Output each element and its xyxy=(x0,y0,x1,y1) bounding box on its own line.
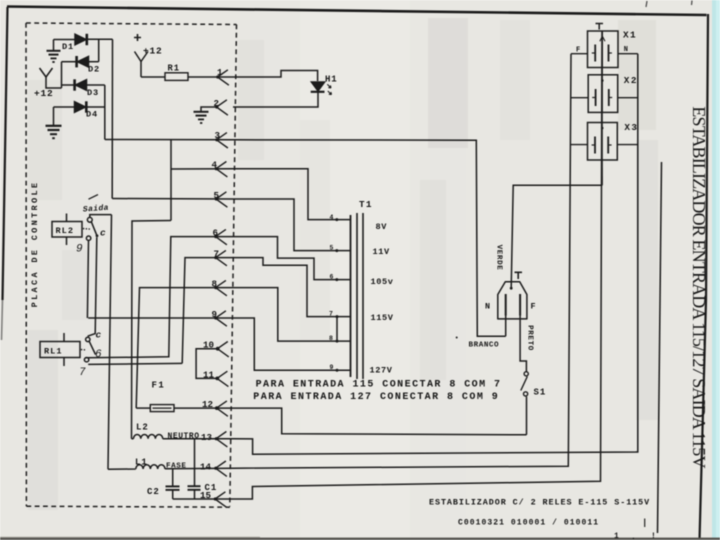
pin2 wire into placa + ground G3 xyxy=(201,107,217,112)
pin 7 xyxy=(214,250,227,265)
svg-text:D2: D2 xyxy=(88,65,100,75)
pin 15 xyxy=(214,492,227,507)
svg-text:9: 9 xyxy=(76,244,83,256)
pin 5 wire (inside placa) xyxy=(112,198,233,201)
contact lower circle xyxy=(86,236,90,240)
pin N bar xyxy=(505,294,507,316)
svg-text:7: 7 xyxy=(79,367,86,379)
svg-text:F1: F1 xyxy=(152,381,166,391)
capacitor C2 leads xyxy=(172,469,174,486)
wire D1-D2 link xyxy=(98,39,100,61)
plus sign xyxy=(134,34,141,41)
tap voltage labels xyxy=(370,222,394,376)
wire D3/D4 right vertical to pin3 wire xyxy=(104,85,106,140)
svg-text:9: 9 xyxy=(330,364,334,371)
svg-text:C1: C1 xyxy=(205,483,218,493)
wire rail to L2 xyxy=(132,221,172,439)
+12 supply Y symbol top xyxy=(135,52,142,62)
pin number labels xyxy=(200,67,223,501)
svg-text:4: 4 xyxy=(330,214,334,221)
speck xyxy=(456,337,458,339)
tap4 wire from pin 4 xyxy=(233,169,351,220)
svg-text:T1: T1 xyxy=(359,199,373,210)
ground G1 xyxy=(47,40,61,63)
wire pin12 to switch S1 xyxy=(233,408,527,435)
pin 1 xyxy=(216,70,229,85)
svg-text:13: 13 xyxy=(201,432,213,443)
svg-text:+12: +12 xyxy=(143,46,163,57)
svg-text:|: | xyxy=(642,518,647,528)
socket X3 xyxy=(588,112,618,185)
svg-text:!: ! xyxy=(651,532,656,540)
pin 10 xyxy=(216,342,229,357)
svg-text:5: 5 xyxy=(330,245,334,252)
LED H1 xyxy=(311,82,324,91)
pin 8 xyxy=(214,280,227,295)
tap7 wire from pin 7 xyxy=(233,258,351,317)
pin 7 wire + drop to RL1 arm xyxy=(182,258,233,364)
pin 9 xyxy=(214,311,227,326)
socket X1 xyxy=(588,31,619,68)
jumper tap7-tap8 xyxy=(336,317,338,342)
pin 11 xyxy=(215,371,228,386)
tap6 wire from pin 6 xyxy=(233,237,351,280)
svg-text:ESTABILIZADOR ENTRADA 115/127: ESTABILIZADOR ENTRADA 115/127 SAIDA 115V xyxy=(689,106,709,468)
svg-text:ESTABILIZADOR C/ 2 RELES E-115: ESTABILIZADOR C/ 2 RELES E-115 S-115V xyxy=(429,498,650,508)
svg-text:RL2: RL2 xyxy=(56,226,74,236)
svg-text:N: N xyxy=(624,46,628,54)
wire D2-D3 left link xyxy=(61,62,63,88)
pin 3 wire (inside placa) xyxy=(105,139,233,141)
linkage dots xyxy=(81,349,83,351)
inductor L1 (fase) xyxy=(108,465,165,469)
svg-text:R1: R1 xyxy=(168,64,181,74)
saida tick xyxy=(89,195,99,200)
svg-text:L2: L2 xyxy=(136,423,149,433)
wire RL1 arm to pin7 drop xyxy=(88,363,182,364)
diode D1 xyxy=(75,34,87,45)
wire S1 up to lower contact xyxy=(526,397,528,435)
wire to R1 xyxy=(141,76,165,78)
linkage dots xyxy=(83,228,85,230)
top edge ticks xyxy=(646,1,647,7)
fuse F1 wire xyxy=(136,407,150,409)
tap9 wire from pin 9 xyxy=(233,318,351,370)
svg-text:8: 8 xyxy=(329,335,333,342)
pin 6 wire + drop to pin9 rail xyxy=(85,237,233,358)
svg-text:X1: X1 xyxy=(623,30,637,41)
wire lower contact down to pin9 rail xyxy=(87,240,88,318)
svg-text:VERDE: VERDE xyxy=(495,245,503,271)
svg-text:1: 1 xyxy=(217,67,223,78)
capacitor C1 plates xyxy=(188,485,201,487)
diode D4 xyxy=(54,101,105,112)
tap5 wire from pin 5 xyxy=(233,199,351,251)
svg-text:127V: 127V xyxy=(370,366,393,376)
contact arm xyxy=(89,341,95,354)
pin 2 xyxy=(215,100,228,115)
wire F1 to pin 12 xyxy=(174,407,233,409)
wire D1 cathode xyxy=(88,38,113,40)
tap junction dots xyxy=(335,218,338,372)
tap number labels xyxy=(329,214,334,371)
title strip separator xyxy=(658,162,662,533)
svg-text:C0010321 010001 / 010011: C0010321 010001 / 010011 xyxy=(458,519,599,528)
svg-text:FASE: FASE xyxy=(166,463,186,471)
scanner cyan edge strip xyxy=(712,0,720,540)
pin 5 xyxy=(215,192,228,207)
LED emission arrows xyxy=(327,84,331,88)
pin 8 wire + drop to fuse F1 xyxy=(136,288,233,409)
wire D1 anode xyxy=(54,39,76,41)
wire R1 to pin1 xyxy=(188,76,233,78)
pin 9 wire (inside placa) xyxy=(88,317,233,319)
svg-text:11V: 11V xyxy=(373,247,391,257)
svg-text:L1: L1 xyxy=(135,457,148,467)
label PRETO (rotated) xyxy=(526,325,534,351)
wire D1 right vertical down to pin5 wire xyxy=(111,39,113,198)
svg-text:N: N xyxy=(485,302,490,312)
svg-text:7: 7 xyxy=(329,311,333,318)
ground G2 below D4 xyxy=(46,107,62,138)
core lines xyxy=(356,213,358,379)
T mark on top xyxy=(515,272,523,279)
fuse F1 body xyxy=(150,405,174,412)
socket feed wires xyxy=(571,53,588,55)
wire D2 anode left xyxy=(62,61,77,63)
wire fase pin14 to socket F chain xyxy=(233,54,571,469)
pin 10-11 link wire xyxy=(196,349,217,379)
wire neutro pin13 to socket N chain xyxy=(233,54,638,455)
svg-text:c: c xyxy=(96,330,102,341)
resistor R1 body xyxy=(165,73,188,81)
placa de controle dashed box xyxy=(26,23,237,507)
svg-text:1: 1 xyxy=(614,532,619,540)
svg-text:RL1: RL1 xyxy=(44,347,62,357)
wire plug earth up to chain xyxy=(511,185,602,288)
socket X2 xyxy=(588,68,618,113)
svg-text:PLACA DE CONTROLE: PLACA DE CONTROLE xyxy=(30,181,40,308)
svg-text:c: c xyxy=(100,228,106,239)
pin 6 xyxy=(214,229,227,244)
svg-text:X2: X2 xyxy=(624,75,638,86)
svg-text:PARA ENTRADA 115 CONECTAR 8 CO: PARA ENTRADA 115 CONECTAR 8 COM 7 xyxy=(256,379,502,390)
pin 13 xyxy=(215,432,228,447)
bottom scanner smear xyxy=(0,538,720,540)
contact top circle + stub to pin9 rail xyxy=(86,337,90,341)
svg-text:H1: H1 xyxy=(325,75,337,85)
neutro wire to pin 13 xyxy=(163,438,233,440)
winding line xyxy=(350,215,352,377)
wire plug F pin down to S1 xyxy=(520,316,526,373)
svg-text:X3: X3 xyxy=(624,122,638,133)
diode D2 xyxy=(77,56,99,67)
wire pin15 to earth chain xyxy=(233,31,602,499)
svg-text:NEUTRO: NEUTRO xyxy=(168,432,200,441)
contact arm xyxy=(91,222,97,236)
svg-text:PARA ENTRADA 127 CONECTAR 8 CO: PARA ENTRADA 127 CONECTAR 8 COM 9 xyxy=(253,392,499,403)
svg-text:8V: 8V xyxy=(376,222,388,232)
wire LED to pin2 xyxy=(233,92,318,107)
svg-text:BRANCO: BRANCO xyxy=(469,341,500,349)
wire pin1 to LED xyxy=(233,71,318,82)
pin 12 xyxy=(215,401,228,416)
contact top circle + stub xyxy=(90,215,112,218)
svg-text:D3: D3 xyxy=(87,88,99,98)
page right border xyxy=(700,14,709,540)
svg-text:D1: D1 xyxy=(62,42,74,52)
svg-text:.: . xyxy=(631,533,636,540)
rotated page title xyxy=(689,106,709,468)
placa rotated label xyxy=(30,181,40,308)
svg-text:115V: 115V xyxy=(371,313,394,323)
capacitor C1 leads (from neutro rail) xyxy=(194,439,196,486)
pin 3 xyxy=(215,133,228,148)
wire C bottoms to pin 15 xyxy=(173,498,233,500)
wire saida stub down to L1 xyxy=(108,215,112,470)
+12 supply Y symbol left xyxy=(40,68,62,88)
pin 4 xyxy=(215,162,228,177)
svg-text:F: F xyxy=(531,302,536,312)
pin 4 wire + vertical from pin3 rail xyxy=(170,140,172,221)
svg-text:105v: 105v xyxy=(371,277,394,287)
inductor L2 (neutro) xyxy=(132,435,163,439)
svg-text:D4: D4 xyxy=(86,110,98,120)
plug N pin extension xyxy=(505,316,507,337)
svg-text:PRETO: PRETO xyxy=(526,325,534,351)
contact lower circle xyxy=(84,358,88,362)
T mark above X1 xyxy=(596,24,604,30)
wire arm down to pin9 rail xyxy=(88,237,97,336)
pin F bar xyxy=(519,294,521,316)
pin 14 xyxy=(214,461,227,476)
svg-text:6: 6 xyxy=(95,349,102,361)
label VERDE (rotated) xyxy=(495,245,503,271)
capacitor C2 plates xyxy=(166,485,180,487)
svg-text:14: 14 xyxy=(200,462,212,473)
tap8 wire from pin 8 xyxy=(233,288,351,342)
svg-text:F: F xyxy=(576,47,580,55)
svg-text:C2: C2 xyxy=(147,487,160,497)
diode D3 xyxy=(62,79,105,90)
svg-text:+12: +12 xyxy=(34,88,54,99)
fase wire to pin 14 xyxy=(165,467,233,470)
svg-text:Saida: Saida xyxy=(83,204,110,215)
wire pin3 to plug N (branco) xyxy=(233,140,506,336)
page top border xyxy=(7,7,707,16)
page left border xyxy=(3,7,8,300)
svg-text:6: 6 xyxy=(330,274,334,281)
svg-text:S1: S1 xyxy=(534,388,547,398)
